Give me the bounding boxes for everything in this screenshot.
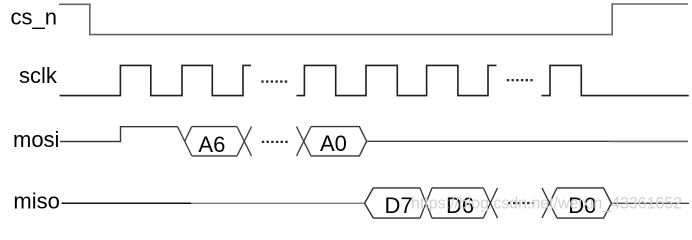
wire mosi lead-in	[60, 127, 178, 142]
break dots sclk group 1	[261, 80, 287, 82]
bus transition X after A6	[237, 127, 252, 156]
svg-text:D7: D7	[385, 193, 413, 218]
bus value A6 hexagon	[192, 127, 237, 156]
wire mosi trailing dark	[367, 140, 609, 142]
svg-text:sclk: sclk	[19, 63, 58, 88]
bus transition X after D6	[483, 188, 497, 218]
bus transition X between D7 and D6	[420, 188, 432, 218]
bus transition X before A0	[297, 127, 312, 156]
bus value A0 hexagon	[311, 127, 367, 156]
bus transition into A6	[178, 127, 192, 156]
wire sclk final pulse	[542, 65, 689, 95]
bus value D6 hexagon	[432, 188, 483, 218]
svg-text:cs_n: cs_n	[11, 5, 57, 30]
svg-text:mosi: mosi	[13, 127, 59, 152]
wire mosi trailing light	[609, 140, 688, 142]
svg-text:A6: A6	[198, 132, 225, 157]
svg-text:miso: miso	[13, 188, 59, 213]
bus transition X before D0	[542, 188, 557, 218]
break dots miso	[508, 202, 534, 204]
break dots sclk group 2	[507, 79, 533, 81]
bus value D7 hexagon	[365, 188, 420, 218]
wire miso lead-in light	[191, 202, 365, 204]
break dots mosi	[262, 141, 288, 143]
wire miso trailing	[612, 202, 690, 204]
bus value D0 hexagon	[557, 188, 612, 218]
wire sclk pulses 1-3	[60, 65, 251, 95]
wire miso lead-in dark	[62, 202, 192, 204]
wire sclk pulses 4-8	[297, 65, 497, 95]
svg-text:https://blog.csdn.net/weixin_4: https://blog.csdn.net/weixin_43361652	[411, 195, 682, 213]
svg-text:A0: A0	[320, 131, 347, 156]
wire cs_n waveform	[59, 4, 688, 35]
